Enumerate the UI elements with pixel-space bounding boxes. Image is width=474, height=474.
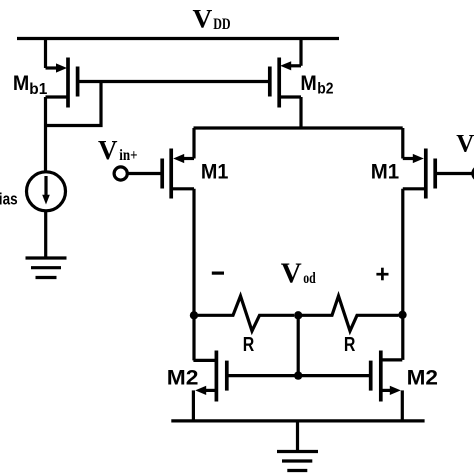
node minus (left output) xyxy=(190,311,198,319)
resistor R (right) xyxy=(302,296,399,331)
svg-text:ias: ias xyxy=(0,189,18,208)
svg-text:V: V xyxy=(456,131,474,158)
svg-text:M: M xyxy=(300,72,316,95)
wire tail rail xyxy=(194,126,403,129)
svg-text:V: V xyxy=(193,4,213,33)
wire Mb2 drain to tail node xyxy=(299,97,302,128)
transistor M1 (right) xyxy=(403,149,435,199)
transistor Mb2 xyxy=(270,58,301,108)
label M2 (right) xyxy=(407,366,438,389)
node plus (right output) xyxy=(398,311,406,319)
wire center node to M2 gates xyxy=(297,315,300,375)
transistor M2 (right) xyxy=(371,351,403,421)
svg-text:b1: b1 xyxy=(29,81,47,98)
label R (right) xyxy=(344,334,356,356)
label Vod polarity minus xyxy=(212,272,224,275)
svg-text:R: R xyxy=(344,334,356,356)
power rail VDD xyxy=(17,37,339,40)
terminal Vin+ xyxy=(114,167,160,180)
label M1 (right) xyxy=(371,161,400,184)
wire Ibias to ground xyxy=(44,211,47,258)
wire bottom rail xyxy=(171,419,424,422)
node Vod center xyxy=(294,311,302,319)
label Mb1 xyxy=(13,72,47,98)
svg-text:R: R xyxy=(243,334,255,356)
ground (center) xyxy=(277,452,318,471)
transistor M1 (left) xyxy=(162,149,194,199)
node M2 gate junction xyxy=(294,371,302,379)
wire M1 right source to node plus xyxy=(401,189,404,360)
svg-text:V: V xyxy=(98,135,118,165)
label Vin- xyxy=(456,131,474,158)
ground (left) xyxy=(26,258,67,278)
label M1 (left) xyxy=(201,161,229,184)
wire Mb1 source to VDD xyxy=(44,37,47,68)
label M2 (left) xyxy=(167,366,199,389)
transistor Mb1 xyxy=(46,58,78,108)
svg-text:M2: M2 xyxy=(167,366,199,389)
wire Mb2 source to VDD xyxy=(299,37,302,66)
svg-text:b2: b2 xyxy=(317,80,333,97)
svg-text:V: V xyxy=(281,258,302,290)
wire gate bus Mb1-Mb2 xyxy=(78,80,270,83)
wire M2 gate bus xyxy=(227,374,371,377)
label Vod polarity plus xyxy=(376,268,388,281)
label Vin+ xyxy=(98,135,138,165)
svg-text:od: od xyxy=(303,270,316,287)
label VDD xyxy=(193,4,231,33)
svg-text:M1: M1 xyxy=(201,161,229,184)
wire M1 left drain stub xyxy=(192,128,195,159)
label Ibias xyxy=(0,189,18,208)
svg-text:in+: in+ xyxy=(119,147,137,164)
svg-text:M: M xyxy=(13,72,29,95)
label Mb2 xyxy=(300,72,333,98)
transistor M2 (left) xyxy=(193,351,226,421)
current source Ibias xyxy=(27,172,66,211)
resistor R (left) xyxy=(198,296,294,331)
svg-text:DD: DD xyxy=(213,16,230,33)
wire M1 right drain stub xyxy=(401,128,404,159)
label R (left) xyxy=(243,334,255,356)
wire rail to ground xyxy=(296,421,299,452)
wire M1 left source to node minus xyxy=(192,189,195,361)
label Vod xyxy=(281,258,316,290)
svg-text:M1: M1 xyxy=(371,161,400,184)
svg-text:M2: M2 xyxy=(407,366,438,389)
wire Mb1 drain to Ibias xyxy=(44,97,47,172)
wire Mb1 diode connection xyxy=(44,82,101,126)
terminal Vin- xyxy=(437,167,474,180)
